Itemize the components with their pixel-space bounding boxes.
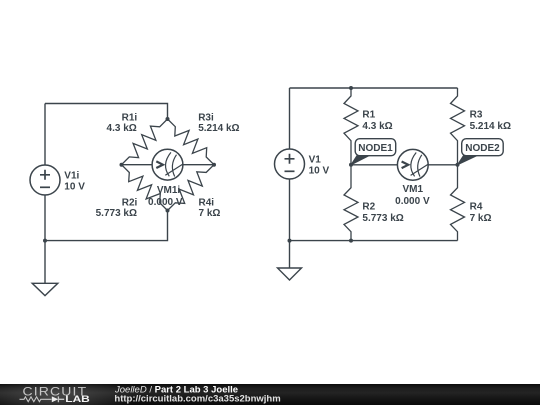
label R1i bbox=[122, 113, 138, 124]
label VM1 bbox=[403, 184, 424, 195]
logo diode symbol bbox=[52, 396, 64, 402]
svg-text:R3: R3 bbox=[470, 109, 483, 120]
resistor R2 bbox=[344, 165, 358, 241]
label R1 bbox=[362, 109, 375, 120]
svg-text:NODE1: NODE1 bbox=[358, 143, 393, 154]
label R4i bbox=[199, 198, 215, 209]
node bottom vertex left circuit bbox=[166, 209, 170, 213]
label R3 bbox=[470, 109, 483, 120]
label V1i value bbox=[64, 170, 85, 192]
svg-text:7 kΩ: 7 kΩ bbox=[199, 208, 221, 219]
wire V1i+ to top-left corner bbox=[44, 104, 46, 166]
svg-text:4.3 kΩ: 4.3 kΩ bbox=[107, 123, 137, 134]
junction bottom rail at R2 bbox=[349, 239, 353, 243]
value 5.214 k&#937; of R3 bbox=[470, 121, 511, 132]
svg-text:NODE2: NODE2 bbox=[465, 143, 500, 154]
svg-text:4.3 kΩ: 4.3 kΩ bbox=[362, 121, 392, 132]
value 4.3 k&#937; of R1 bbox=[362, 121, 392, 132]
footer bar bbox=[0, 384, 540, 405]
svg-text:R2: R2 bbox=[362, 201, 375, 212]
svg-text:R1i: R1i bbox=[122, 113, 138, 124]
wire NODE1 to voltmeter VM1 bbox=[351, 164, 397, 166]
wire top rail right circuit bbox=[290, 87, 458, 89]
wire left vertex to voltmeter VM1i bbox=[122, 164, 153, 166]
resistor R1 bbox=[344, 88, 358, 165]
resistor R3 bbox=[451, 88, 465, 165]
svg-text:R1: R1 bbox=[362, 109, 375, 120]
node top vertex left circuit bbox=[166, 117, 170, 121]
ground left circuit bbox=[32, 241, 58, 296]
logo wordmark LAB bbox=[65, 394, 90, 405]
svg-text:http://circuitlab.com/c3a35s2b: http://circuitlab.com/c3a35s2bnwjhm bbox=[114, 394, 280, 405]
node label NODE1 bbox=[351, 139, 396, 165]
footer title line bbox=[114, 384, 238, 395]
node NODE1 bbox=[349, 163, 353, 167]
svg-text:R2i: R2i bbox=[122, 198, 138, 209]
label R4 bbox=[470, 201, 483, 212]
node label NODE2 bbox=[458, 139, 504, 165]
svg-text:LAB: LAB bbox=[65, 394, 90, 405]
svg-text:7 kΩ: 7 kΩ bbox=[470, 213, 492, 224]
node NODE2 bbox=[456, 163, 460, 167]
CircuitLab logo wordmark CIRCUIT bbox=[23, 385, 88, 399]
voltage source V1 10 V bbox=[275, 149, 305, 179]
resistor R1i bbox=[122, 119, 168, 165]
svg-text:R4i: R4i bbox=[199, 198, 215, 209]
svg-text:5.773 kΩ: 5.773 kΩ bbox=[362, 213, 403, 224]
junction right circuit ground node bbox=[288, 239, 292, 243]
wire bottom vertex to bottom rail bbox=[45, 211, 168, 241]
svg-text:0.000 V: 0.000 V bbox=[148, 197, 183, 208]
label R2 bbox=[362, 201, 375, 212]
svg-text:V1i: V1i bbox=[64, 170, 79, 181]
junction top rail at R1 bbox=[349, 86, 353, 90]
logo resistor symbol bbox=[20, 397, 52, 402]
svg-text:VM1: VM1 bbox=[403, 184, 424, 195]
label V1 value bbox=[309, 154, 330, 176]
label R2i bbox=[122, 198, 138, 209]
svg-text:0.000 V: 0.000 V bbox=[395, 196, 430, 207]
svg-text:R3i: R3i bbox=[198, 113, 214, 124]
wire V1i- to bottom rail bbox=[44, 195, 46, 241]
wire V1- to bottom rail bbox=[289, 179, 291, 241]
svg-text:5.773 kΩ: 5.773 kΩ bbox=[96, 208, 137, 219]
wire bottom rail right circuit bbox=[290, 240, 458, 242]
resistor R3i bbox=[168, 119, 215, 165]
svg-text:5.214 kΩ: 5.214 kΩ bbox=[470, 121, 511, 132]
voltmeter VM1i bbox=[152, 149, 183, 180]
value 7 k&#937; of R4i bbox=[199, 208, 221, 219]
wire voltmeter VM1i to right vertex bbox=[183, 164, 214, 166]
svg-text:10 V: 10 V bbox=[64, 181, 85, 192]
wire V1+ to top rail bbox=[289, 88, 291, 149]
footer url line bbox=[114, 394, 280, 405]
value 7 k&#937; of R4 bbox=[470, 213, 492, 224]
resistor R4i bbox=[168, 165, 215, 211]
node left vertex left circuit bbox=[120, 163, 124, 167]
value 4.3 k&#937; of R1i bbox=[107, 123, 137, 134]
wire voltmeter VM1 to NODE2 bbox=[428, 164, 457, 166]
label R3i bbox=[198, 113, 214, 124]
resistor R4 bbox=[451, 165, 465, 241]
resistor R2i bbox=[122, 165, 168, 211]
voltmeter VM1 bbox=[397, 149, 428, 180]
wire top rail left circuit bbox=[45, 104, 168, 120]
value 0.000 V of VM1i bbox=[148, 197, 183, 208]
label VM1i bbox=[157, 185, 181, 196]
value 0.000 V of VM1 bbox=[395, 196, 430, 207]
svg-text:VM1i: VM1i bbox=[157, 185, 181, 196]
svg-text:R4: R4 bbox=[470, 201, 483, 212]
value 5.214 k&#937; of R3i bbox=[198, 123, 239, 134]
node right vertex left circuit bbox=[212, 163, 216, 167]
value 5.773 k&#937; of R2i bbox=[96, 208, 137, 219]
svg-text:5.214 kΩ: 5.214 kΩ bbox=[198, 123, 239, 134]
svg-text:V1: V1 bbox=[309, 154, 322, 165]
value 5.773 k&#937; of R2 bbox=[362, 213, 403, 224]
ground right circuit bbox=[278, 241, 302, 280]
junction left circuit ground node bbox=[43, 239, 47, 243]
svg-text:10 V: 10 V bbox=[309, 165, 330, 176]
voltage source V1i 10 V bbox=[30, 165, 60, 195]
